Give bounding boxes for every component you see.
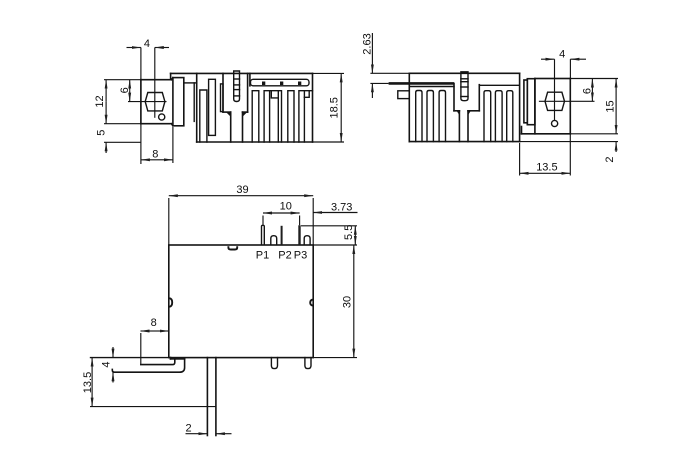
svg-text:15: 15 [604, 100, 616, 112]
svg-text:2: 2 [186, 422, 192, 434]
svg-text:39: 39 [236, 184, 248, 196]
svg-text:12: 12 [94, 95, 106, 107]
svg-text:5: 5 [95, 130, 107, 136]
svg-text:30: 30 [341, 296, 353, 308]
svg-text:4: 4 [144, 38, 150, 50]
svg-text:4: 4 [100, 362, 112, 368]
svg-text:3.73: 3.73 [331, 201, 352, 213]
svg-text:13.5: 13.5 [536, 161, 557, 173]
svg-text:P1: P1 [256, 249, 269, 261]
svg-text:18.5: 18.5 [328, 97, 340, 118]
svg-text:4: 4 [559, 49, 565, 61]
svg-text:10: 10 [280, 200, 292, 212]
svg-text:8: 8 [151, 317, 157, 329]
svg-text:5.5: 5.5 [343, 225, 355, 240]
svg-text:6: 6 [119, 87, 131, 93]
svg-text:2: 2 [604, 156, 616, 162]
svg-text:6: 6 [581, 88, 593, 94]
svg-text:13.5: 13.5 [82, 372, 94, 393]
svg-text:P2: P2 [278, 249, 291, 261]
svg-text:8: 8 [152, 149, 158, 161]
svg-text:P3: P3 [294, 249, 307, 261]
